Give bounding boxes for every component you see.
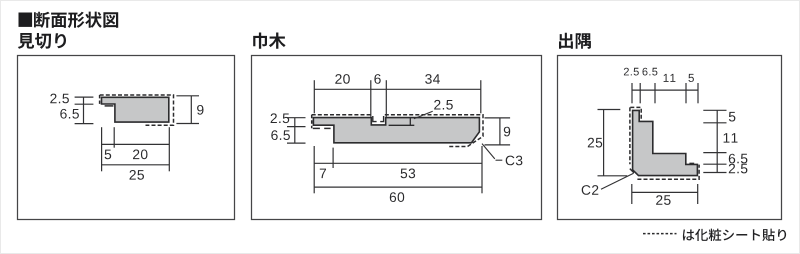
P3 left dim 25 <box>603 110 605 176</box>
legend text は化粧シート貼り <box>683 229 786 241</box>
P3 sheet tuck dash on strip top <box>689 162 694 164</box>
P3 sheet dashed left <box>629 107 631 164</box>
P3 bottom dim extension lines <box>631 184 633 204</box>
panel box 1 (mikiri) <box>18 56 235 220</box>
P1 left dim extension ticks <box>83 97 85 124</box>
P2 sheet dashed left drop <box>311 115 313 128</box>
P1 dim text 20 <box>133 150 148 160</box>
P2 left dim ticks <box>287 117 306 119</box>
P2 text C3 <box>506 156 523 166</box>
P3 text C2 <box>582 185 599 195</box>
P3 right dims 5/11/6.5/2.5 <box>716 110 718 172</box>
P2 dim 9 ticks <box>485 117 511 119</box>
title text 断面形状図 <box>34 12 118 28</box>
P2 dim texts 20 / 6 / 34 <box>335 74 350 84</box>
panel title 巾木 <box>253 33 285 49</box>
P1 bottom dim lines <box>102 143 170 145</box>
P3 top dim texts 2.5/6.5/11/5 <box>624 68 639 76</box>
P2 dim texts 7 / 53 / 60 <box>320 169 326 179</box>
P2 top dim 20/6/34 <box>314 88 481 90</box>
P2 bottom dims 7/53/60 <box>314 162 482 164</box>
P1 bottom dim extension lines <box>101 127 103 171</box>
P2 sheet dashed wrap with slot dip <box>312 114 372 116</box>
P1 profile body <box>102 97 169 122</box>
P1 dim 9 ticks <box>176 95 199 97</box>
P2 leader to 2.5 <box>414 111 433 119</box>
panel box 2 (habaki) <box>252 56 542 220</box>
P3 sheet dashed bottom and right end <box>637 165 699 180</box>
P3 C2 leader <box>601 173 634 189</box>
P1 dim text 6.5 <box>60 109 79 119</box>
P1 sheet dashed left drop <box>99 95 101 106</box>
P2 C3 leader <box>482 144 495 159</box>
P2 dim text 9 <box>504 127 510 137</box>
P2 bottom dim extension lines <box>313 146 315 193</box>
P1 dim text 5 <box>105 150 112 160</box>
P3 right dim texts 5/11/6.5/2.5 <box>729 112 736 122</box>
legend dashed sample <box>643 233 677 235</box>
P2 top dim extension lines <box>313 80 315 113</box>
panel title 出隅 <box>559 33 591 49</box>
P1 sheet tuck dash under strip <box>105 105 114 107</box>
P2 dim texts 2.5 / 6.5 <box>271 113 290 123</box>
P2 sheet tuck dashes under strip <box>313 127 320 129</box>
P1 dim text 2.5 <box>50 94 69 104</box>
P1 bottom dim line 25 <box>102 164 170 166</box>
P2 profile body with slot and C3 chamfer <box>313 118 479 143</box>
P3 L-profile with C2 chamfer <box>633 110 698 175</box>
panel title 見切り <box>18 33 66 49</box>
P2 2.5 layer tick <box>409 118 411 126</box>
panel box 3 (desumi) <box>558 56 782 220</box>
P1 right dim 9 <box>190 96 192 124</box>
P2 2.5 layer line <box>389 124 415 126</box>
P1 dim text 25 <box>130 170 145 180</box>
P3 top dims 2.5/6.5/11/5 <box>632 89 698 91</box>
P1 sheet dashed wrap top/right/bottom <box>100 95 174 125</box>
P3 sheet dashed top hook wrap <box>630 107 641 119</box>
P2 right dim 9 <box>499 118 501 145</box>
P3 sheet dashed chamfer piece <box>630 169 634 173</box>
P3 dim text 25 (bottom) <box>656 195 671 205</box>
P1 dim text 9 <box>197 105 203 115</box>
P2 left dim 2.5/6.5 <box>294 118 296 143</box>
P2 text 2.5 leader label <box>434 100 453 110</box>
P3 dim text 25 (left) <box>588 138 602 148</box>
P3 bottom dim 25 <box>632 191 698 193</box>
title square bullet <box>19 13 33 27</box>
P3 left dim ticks <box>598 109 621 111</box>
